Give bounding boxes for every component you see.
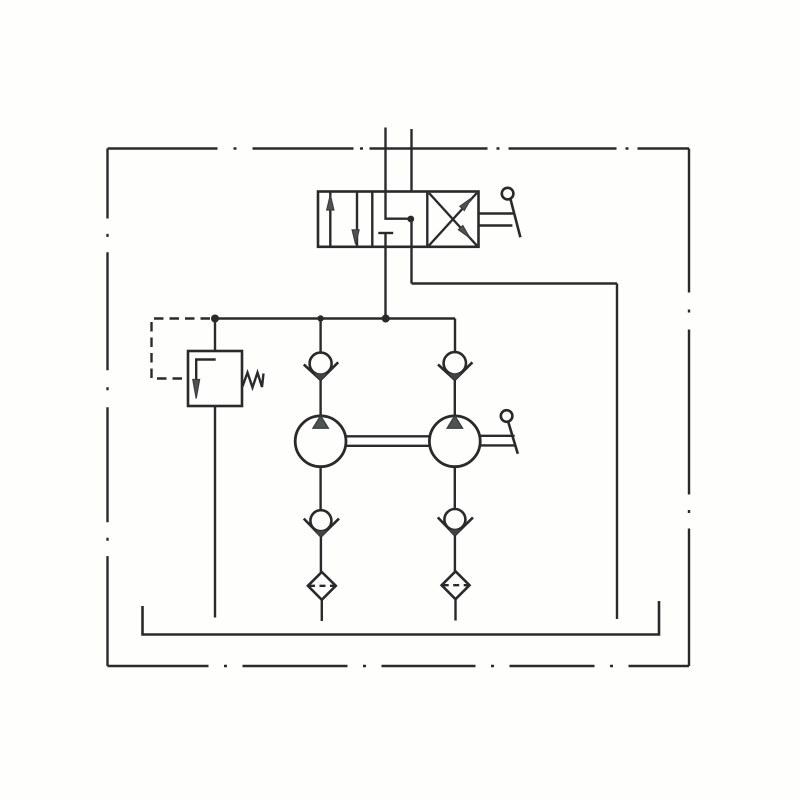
valve lever knob bbox=[502, 188, 514, 200]
relief valve RV1 body bbox=[188, 351, 242, 406]
check valve CV1 bbox=[304, 353, 338, 381]
hand pump P2 bbox=[429, 416, 480, 467]
wire T return right drop to tank bbox=[616, 284, 618, 620]
wire port A riser (top, left) bbox=[384, 128, 386, 192]
valve section divider left bbox=[371, 192, 373, 247]
wire relief inlet bbox=[214, 319, 216, 352]
valve right-position cross line down bbox=[429, 193, 477, 246]
valve centre-position junction dot bbox=[407, 216, 414, 223]
valve centre-position blocked P stem bbox=[384, 233, 386, 247]
valve left-position down arrowhead bbox=[352, 230, 359, 244]
pump lever link double line bbox=[480, 436, 515, 446]
valve right-position cross line up bbox=[429, 193, 477, 246]
relief valve internal elbow bbox=[196, 360, 216, 381]
valve lever actuator box top line bbox=[479, 212, 514, 214]
filter F2 bbox=[442, 571, 470, 599]
junction dot relief tee bbox=[211, 315, 219, 323]
valve centre-position A-to-T elbow bbox=[386, 192, 411, 219]
wire pump P2 suction line bbox=[454, 467, 456, 509]
valve lever actuator box bottom line bbox=[479, 224, 513, 226]
valve left-position down flow line bbox=[356, 192, 358, 247]
directional valve DV1 body bbox=[318, 192, 479, 247]
valve left-position up flow line bbox=[329, 192, 331, 247]
wire check valve to pump P1 bbox=[319, 380, 321, 416]
valve right-position up-right arrowhead bbox=[460, 198, 472, 210]
wire check valve to pump P2 bbox=[454, 380, 456, 416]
pump shaft double line bbox=[346, 436, 429, 446]
valve right-position down-right arrowhead bbox=[458, 226, 470, 238]
pilot line dashed bbox=[152, 319, 211, 379]
wire T return drop from valve bbox=[410, 219, 412, 284]
wire P line valve to manifold bbox=[384, 247, 386, 319]
valve left-position up arrowhead bbox=[327, 195, 334, 210]
relief valve spring bbox=[243, 373, 264, 388]
check valve CV4 bbox=[438, 509, 473, 536]
wire port B riser (top, right) bbox=[410, 129, 412, 192]
pump lever arm bbox=[508, 422, 518, 454]
wire check valve CV4 to filter bbox=[454, 535, 456, 571]
wire T return horizontal run bbox=[412, 282, 618, 284]
wire pump P1 suction line bbox=[319, 467, 321, 511]
wire check valve CV3 to filter bbox=[320, 536, 322, 572]
check valve CV2 bbox=[438, 352, 472, 380]
wire manifold right branch drop bbox=[454, 319, 456, 353]
enclosure dash-dot border bbox=[108, 149, 690, 667]
valve lever arm bbox=[510, 199, 520, 238]
valve section divider right bbox=[426, 192, 428, 247]
valve centre-position blocked P bar bbox=[378, 232, 393, 234]
tank reservoir bbox=[143, 601, 660, 635]
check valve CV3 bbox=[304, 510, 339, 537]
wire pressure manifold bbox=[215, 317, 455, 319]
junction dot P line bbox=[382, 315, 390, 323]
wire relief drain to tank bbox=[214, 406, 216, 618]
filter F1 bbox=[308, 572, 336, 600]
wire filter F1 tail bbox=[321, 600, 323, 621]
wire filter F2 tail bbox=[454, 599, 456, 620]
relief valve internal arrow bbox=[193, 380, 200, 399]
junction dot left branch bbox=[317, 315, 323, 321]
pump lever knob bbox=[501, 410, 513, 422]
hand pump P1 bbox=[295, 416, 346, 467]
wire left branch manifold to check valve bbox=[319, 319, 321, 353]
